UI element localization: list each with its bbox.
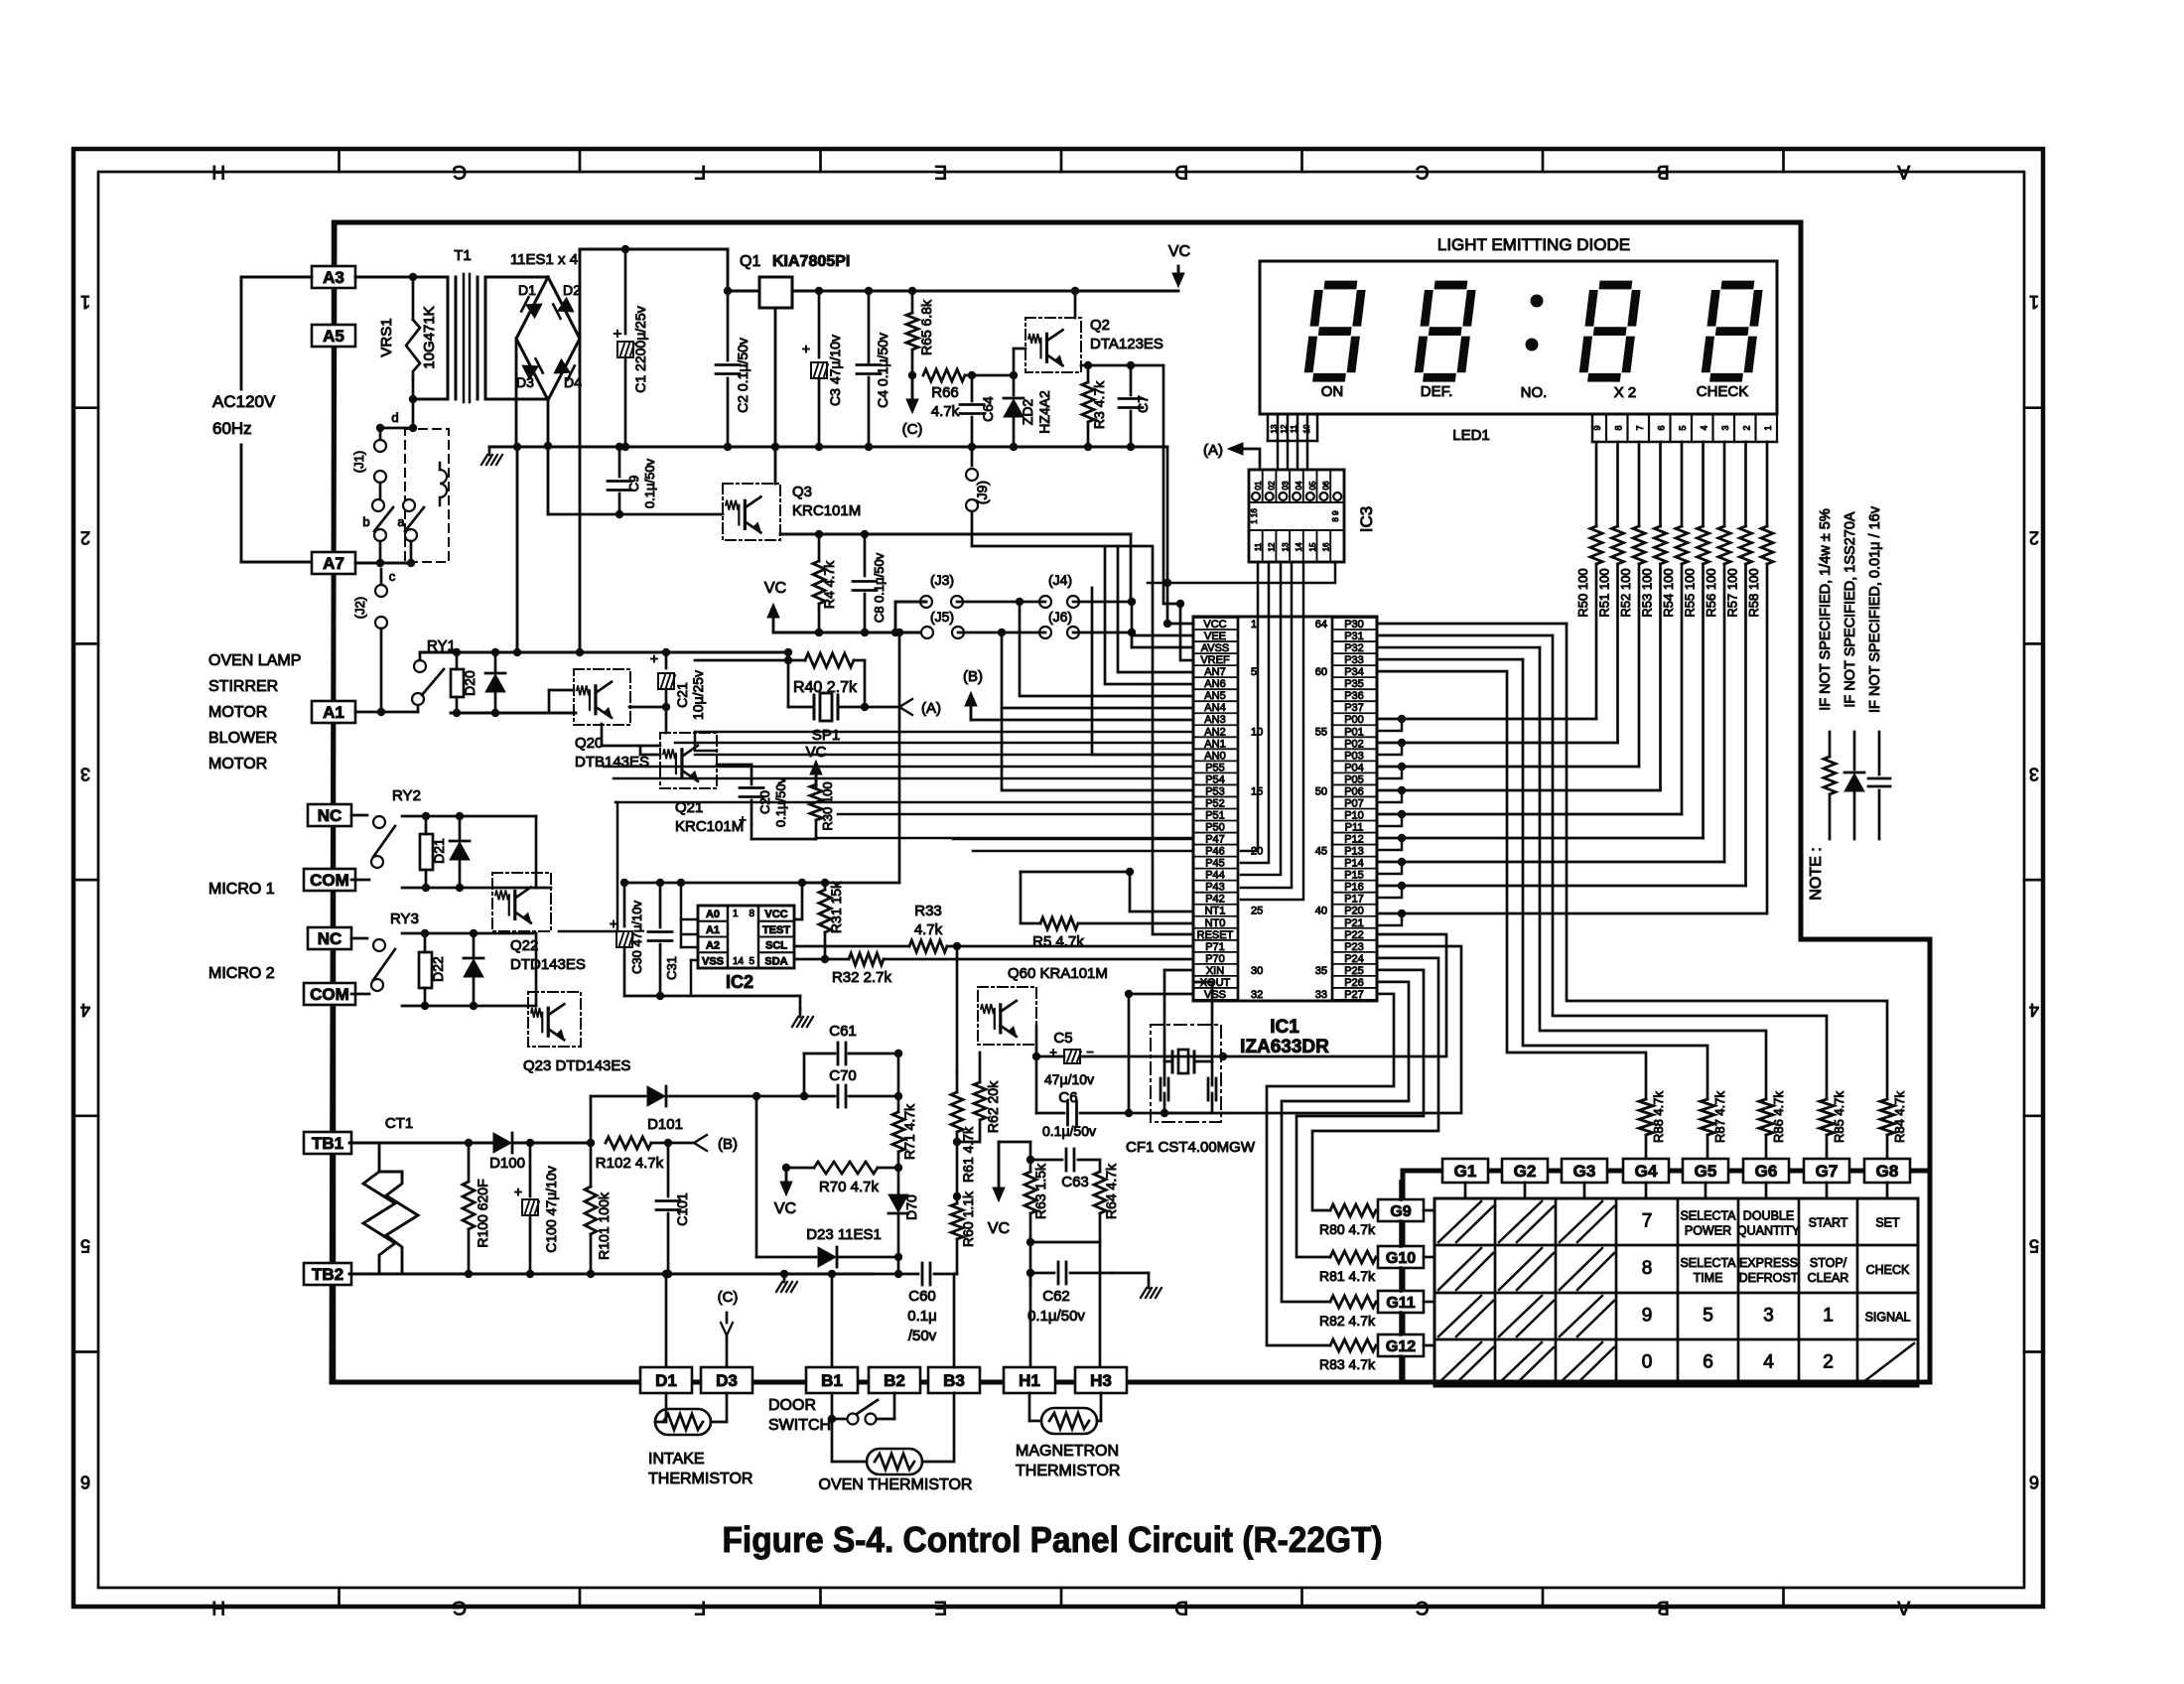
svg-text:ON: ON	[1321, 383, 1344, 400]
capacitor C7	[1130, 365, 1133, 395]
resistor R31 15k	[802, 882, 825, 885]
svg-text:0.1μ/50v: 0.1μ/50v	[642, 458, 657, 508]
svg-text:55: 55	[1315, 726, 1327, 738]
svg-text:R87 4.7k: R87 4.7k	[1712, 1090, 1727, 1143]
svg-text:E: E	[934, 161, 947, 182]
svg-text:(J9): (J9)	[974, 481, 990, 504]
svg-text:R53 100: R53 100	[1640, 568, 1655, 617]
svg-text:F: F	[694, 161, 706, 182]
svg-text:8: 8	[749, 909, 754, 919]
svg-text:03: 03	[1281, 481, 1290, 490]
svg-text:50: 50	[1315, 785, 1327, 797]
main circuit boundary	[332, 222, 1930, 1382]
svg-text:14: 14	[733, 956, 745, 967]
svg-text:VCC: VCC	[764, 909, 787, 920]
key row terminal G12	[1378, 1334, 1424, 1356]
wire P47 short	[953, 838, 1193, 841]
svg-text:NC: NC	[318, 806, 342, 825]
resistor R5 4.7k loop	[1021, 871, 1130, 874]
svg-text:(J4): (J4)	[1048, 572, 1072, 588]
svg-text:R102 4.7k: R102 4.7k	[596, 1155, 664, 1172]
svg-text:OVEN LAMP: OVEN LAMP	[208, 652, 301, 669]
svg-text:AC120V: AC120V	[212, 392, 276, 411]
wire AN0 riser	[1092, 588, 1193, 755]
svg-text:G6: G6	[1755, 1162, 1778, 1181]
svg-text:Q3: Q3	[792, 484, 812, 500]
wire IC2 VCC riser	[794, 883, 802, 919]
wire C7 node right	[1163, 365, 1180, 604]
svg-text:0.1μ: 0.1μ	[907, 1308, 937, 1325]
transistor Q3 KRC101M	[723, 484, 780, 540]
svg-text:DTD143ES: DTD143ES	[510, 956, 586, 973]
svg-text:MICRO 2: MICRO 2	[208, 965, 275, 982]
svg-text:5: 5	[1678, 425, 1688, 430]
jumper (J2)	[355, 562, 411, 565]
svg-text:TIME: TIME	[1694, 1271, 1723, 1285]
frame column ticks bottom	[338, 1588, 341, 1607]
svg-text:25: 25	[1251, 906, 1263, 917]
diode D100	[493, 1133, 511, 1153]
svg-text:3: 3	[1763, 1306, 1774, 1327]
svg-text:IF NOT SPECIFIED, 0.01μ / 16v: IF NOT SPECIFIED, 0.01μ / 16v	[1867, 505, 1883, 713]
key matrix boundary bus	[1403, 1171, 1930, 1382]
wire C62/H1	[1026, 1269, 1034, 1277]
IC3 GND wire	[1148, 562, 1335, 583]
svg-text:IZA633DR: IZA633DR	[1240, 1037, 1329, 1057]
svg-text:CHECK: CHECK	[1866, 1263, 1910, 1277]
svg-text:STIRRER: STIRRER	[208, 678, 278, 695]
intake thermistor	[665, 1393, 668, 1422]
svg-text:R101 100k: R101 100k	[596, 1192, 612, 1260]
svg-text:(J1): (J1)	[351, 451, 366, 473]
svg-text:G4: G4	[1635, 1162, 1658, 1181]
svg-text:6: 6	[80, 1472, 90, 1491]
svg-text:16: 16	[1322, 542, 1331, 551]
relay RY2 switch	[351, 814, 367, 817]
svg-text:D70: D70	[903, 1194, 919, 1220]
svg-text:LED1: LED1	[1452, 427, 1490, 444]
svg-text:6: 6	[1657, 425, 1667, 430]
svg-text:+: +	[614, 326, 622, 343]
svg-text:R50 100: R50 100	[1575, 568, 1590, 617]
svg-text:04: 04	[1295, 481, 1303, 490]
svg-text:TB2: TB2	[312, 1265, 343, 1284]
svg-text:D1: D1	[518, 282, 536, 298]
wire SCL row + resistor R33 4.7k	[794, 945, 907, 948]
key row terminal G10	[1378, 1246, 1424, 1268]
svg-text:IC2: IC2	[726, 972, 753, 992]
wires IC3 down to IC1 left pins	[1241, 562, 1258, 851]
wire T1 bottom	[413, 398, 448, 401]
wire VC rail down to IC1	[1166, 447, 1169, 583]
resistor R61 4.7k	[951, 1092, 963, 1132]
svg-text:C3 47μ/10v: C3 47μ/10v	[827, 335, 843, 406]
capacitor C3 47u/10v	[818, 291, 821, 357]
svg-text:NO.: NO.	[1521, 384, 1548, 401]
svg-text:CHECK: CHECK	[1697, 383, 1749, 400]
svg-text:R63 1.5k: R63 1.5k	[1032, 1163, 1048, 1219]
relay RY3 switch	[351, 937, 367, 940]
svg-text:MOTOR: MOTOR	[208, 756, 267, 772]
wire D23/D70 node riser	[897, 1257, 900, 1274]
VC arrow left	[785, 1168, 788, 1192]
wire AN7 riser	[1118, 546, 1193, 672]
wire bridge right down to relay rail	[579, 339, 582, 652]
connector IC3	[1249, 470, 1344, 562]
svg-text:VC: VC	[774, 1200, 796, 1217]
svg-text:Q23 DTD143ES: Q23 DTD143ES	[523, 1057, 630, 1074]
svg-text:06: 06	[1322, 481, 1331, 490]
svg-text:G: G	[452, 161, 467, 182]
resistor R51 100	[1616, 442, 1619, 526]
key matrix grid	[1434, 1198, 1918, 1386]
capacitor C8 0.1u/50v	[864, 534, 867, 576]
ground rail	[489, 446, 1167, 449]
svg-text:G10: G10	[1386, 1250, 1416, 1267]
IC2 right pin labels	[758, 906, 794, 921]
svg-text:A: A	[1897, 1597, 1910, 1617]
svg-text:R30 100: R30 100	[820, 781, 835, 830]
frame column ticks top	[338, 149, 341, 172]
transistor Q60 KRA101M	[978, 987, 1036, 1045]
svg-text:H1: H1	[1019, 1371, 1040, 1390]
svg-text:R51 100: R51 100	[1597, 568, 1612, 617]
svg-text:SELECTA: SELECTA	[1680, 1209, 1736, 1223]
wire A3 to T1	[355, 276, 448, 279]
resistor R60 1.1k	[956, 1196, 959, 1203]
svg-text:Figure S-4. Control Panel Circ: Figure S-4. Control Panel Circuit (R-22G…	[723, 1519, 1383, 1560]
key matrix diagonal cells	[1438, 1201, 1481, 1242]
wire bridge bottom down	[547, 400, 550, 514]
IC2 support wires	[624, 882, 802, 885]
svg-text:30: 30	[1251, 965, 1263, 977]
resistor R88 4.7k	[1639, 1099, 1653, 1135]
wires G boxes to matrix columns	[1464, 1183, 1467, 1198]
svg-text:EXPRESS: EXPRESS	[1739, 1256, 1798, 1270]
wire to R101	[530, 1142, 591, 1145]
svg-text:A: A	[1897, 161, 1910, 182]
svg-text:C64: C64	[980, 396, 996, 422]
svg-text:SDA: SDA	[764, 955, 787, 967]
svg-text:QUANTITY: QUANTITY	[1737, 1224, 1801, 1238]
wires Q20/Q21 interconnect	[601, 724, 604, 746]
wire IC1 VREF	[1180, 604, 1193, 660]
svg-text:+: +	[739, 812, 747, 827]
svg-text:R71 4.7k: R71 4.7k	[901, 1103, 917, 1160]
svg-text:COM: COM	[310, 871, 349, 890]
svg-text:R54 100: R54 100	[1661, 568, 1676, 617]
svg-text:X 2: X 2	[1614, 384, 1637, 401]
svg-text:R83 4.7k: R83 4.7k	[1319, 1356, 1376, 1372]
wire P53 bend	[1002, 708, 1193, 790]
svg-text:1: 1	[1763, 425, 1773, 430]
svg-text:E: E	[934, 1597, 947, 1617]
svg-text:G1: G1	[1454, 1162, 1477, 1181]
svg-text:5: 5	[749, 956, 754, 967]
wire bridge left to ground rail	[515, 339, 518, 447]
svg-text:VC: VC	[764, 580, 786, 597]
svg-text:Q20: Q20	[575, 735, 603, 752]
svg-text:G12: G12	[1386, 1338, 1416, 1355]
wire P23 to C6 rail	[1223, 946, 1461, 1113]
svg-text:3: 3	[2029, 764, 2039, 783]
svg-text:POWER: POWER	[1685, 1224, 1731, 1238]
svg-text:R81 4.7k: R81 4.7k	[1319, 1268, 1376, 1284]
svg-text:B: B	[1657, 161, 1670, 182]
wire R40 top to Q20/C21 rail	[695, 659, 788, 662]
svg-text:9: 9	[1592, 425, 1602, 430]
regulated +5V rail VC	[792, 290, 1178, 293]
svg-text:8 9: 8 9	[1331, 510, 1340, 522]
resistor R63 1.5k	[1029, 1142, 1032, 1172]
svg-text:Q22: Q22	[510, 937, 538, 954]
resistor R66 4.7k	[923, 369, 965, 381]
svg-text:R100 620F: R100 620F	[475, 1179, 490, 1247]
relay coil RY3 (D22 rect)	[419, 952, 432, 988]
svg-text:35: 35	[1315, 965, 1327, 977]
svg-text:SIGNAL: SIGNAL	[1865, 1311, 1911, 1325]
svg-text:R31 15k: R31 15k	[828, 881, 844, 933]
resistor R52 100	[1638, 442, 1641, 526]
wire AN5 bend	[1020, 602, 1193, 696]
resistor R100 620F	[465, 1139, 473, 1147]
svg-text:A1: A1	[323, 703, 344, 722]
svg-text:R56 100: R56 100	[1704, 568, 1718, 617]
svg-text:C101: C101	[674, 1193, 690, 1226]
ground symbol main	[488, 447, 491, 455]
svg-text:0.1μ/50v: 0.1μ/50v	[1027, 1308, 1085, 1325]
svg-text:01: 01	[1254, 481, 1263, 490]
svg-text:DEF.: DEF.	[1421, 383, 1453, 400]
svg-text:G8: G8	[1876, 1162, 1899, 1181]
wire AN4 bend	[1002, 632, 1193, 708]
svg-text:b: b	[362, 514, 369, 529]
svg-text:DEFROST: DEFROST	[1739, 1271, 1799, 1285]
svg-text:SWITCH: SWITCH	[768, 1417, 831, 1434]
wire Q60 base	[956, 946, 959, 1072]
svg-text:D100: D100	[489, 1155, 525, 1172]
svg-text:a: a	[397, 514, 405, 529]
terminal H3	[1075, 1367, 1127, 1393]
transistor Q22 DTD143ES	[492, 873, 551, 931]
svg-text:0.1μ/50v: 0.1μ/50v	[1042, 1123, 1096, 1139]
transistor Q2 DTA123ES	[1025, 318, 1081, 372]
wire SDA row + resistor R32 2.7k	[794, 958, 849, 961]
svg-text:MOTOR: MOTOR	[208, 704, 267, 721]
wire H3 riser	[1099, 1242, 1102, 1370]
IC2 left pin labels	[698, 906, 728, 921]
svg-text:G3: G3	[1573, 1162, 1596, 1181]
border frame inner	[98, 172, 2024, 1588]
capacitor C4 0.1u/50v	[868, 291, 871, 362]
svg-text:R57 100: R57 100	[1725, 568, 1740, 617]
capacitor C9 0.1u/50v	[618, 447, 621, 477]
wire D1 riser	[665, 1274, 668, 1369]
wire P55-P50 long	[695, 754, 1193, 757]
svg-text:13: 13	[1270, 424, 1279, 433]
vertical feeders from Q21-Q23	[695, 732, 717, 751]
svg-text:9: 9	[1642, 1306, 1653, 1327]
svg-text:START: START	[1809, 1216, 1848, 1230]
svg-text:R85 4.7k: R85 4.7k	[1832, 1090, 1846, 1143]
svg-text:R66: R66	[931, 384, 959, 401]
terminal A1	[312, 701, 355, 723]
wire bridge right up to +rail	[579, 249, 582, 339]
terminal D1	[640, 1367, 692, 1393]
transistor Q23 DTD143ES	[528, 992, 581, 1047]
unregulated rail to Q1	[580, 248, 728, 251]
svg-text:MAGNETRON: MAGNETRON	[1016, 1443, 1119, 1460]
svg-text:(J2): (J2)	[352, 597, 367, 619]
svg-text:3: 3	[80, 764, 90, 783]
resistor R56 100	[1723, 442, 1726, 526]
svg-text:C100 47μ/10v: C100 47μ/10v	[543, 1166, 559, 1252]
svg-text:C63: C63	[1061, 1174, 1089, 1191]
svg-text:4: 4	[1700, 425, 1709, 430]
svg-text:4: 4	[1763, 1352, 1774, 1373]
resistor R101 100k	[585, 1187, 597, 1234]
svg-text:C9: C9	[626, 476, 641, 492]
svg-text:1: 1	[1823, 1306, 1834, 1327]
svg-text:(J5): (J5)	[930, 609, 954, 625]
svg-text:CLEAR: CLEAR	[1808, 1271, 1849, 1285]
wire C5 row	[1036, 1055, 1064, 1058]
svg-text:B: B	[1657, 1597, 1670, 1617]
svg-text:CF1 CST4.00MGW: CF1 CST4.00MGW	[1126, 1139, 1256, 1156]
svg-text:TB1: TB1	[312, 1134, 343, 1153]
svg-text:(B): (B)	[718, 1136, 738, 1153]
svg-text:R65 6.8k: R65 6.8k	[918, 299, 934, 355]
svg-text:R58 100: R58 100	[1746, 568, 1761, 617]
svg-text:D1: D1	[655, 1371, 677, 1390]
svg-text:A1: A1	[706, 924, 720, 936]
terminal B2	[869, 1367, 920, 1393]
svg-text:G2: G2	[1514, 1162, 1537, 1181]
node (A) chevron	[865, 706, 899, 709]
svg-text:(A): (A)	[1203, 442, 1223, 459]
wire P22 to C5 rail	[1223, 934, 1446, 1056]
svg-text:d: d	[391, 410, 398, 425]
svg-text:D: D	[1174, 1597, 1188, 1617]
svg-text:60Hz: 60Hz	[212, 419, 252, 438]
svg-text:VC: VC	[988, 1220, 1010, 1237]
resistor R50 100	[1595, 442, 1598, 526]
bottom rail TB2	[469, 1273, 874, 1276]
svg-text:SET: SET	[1875, 1216, 1900, 1230]
svg-text:(A): (A)	[921, 700, 941, 717]
svg-text:R60 1.1k: R60 1.1k	[960, 1191, 976, 1247]
svg-text:5: 5	[1251, 666, 1257, 678]
jumper (J9)	[971, 447, 974, 466]
capacitor C64	[971, 375, 974, 401]
svg-text:1 16: 1 16	[1250, 508, 1259, 524]
wire T1 secondary to bridge	[485, 276, 548, 279]
svg-text:DOUBLE: DOUBLE	[1743, 1209, 1794, 1223]
svg-text:C31: C31	[664, 956, 679, 980]
svg-text:11ES1 x 4: 11ES1 x 4	[510, 251, 578, 268]
key row terminal G9	[1378, 1199, 1424, 1221]
relay RY3 terminal COM	[304, 983, 355, 1005]
IC2 ground	[799, 1009, 802, 1017]
svg-text:(C): (C)	[902, 421, 923, 438]
svg-text:C: C	[1416, 1597, 1430, 1617]
wires IC1 P24-P27 to key row resistors	[1312, 958, 1438, 1210]
transistor Q21 KRC101M	[660, 733, 717, 788]
frame row ticks left	[73, 406, 98, 409]
resistor R82 4.7k	[1330, 1296, 1376, 1308]
svg-text:R33: R33	[914, 903, 942, 919]
svg-text:20: 20	[1251, 846, 1263, 858]
svg-text:R3 4.7k: R3 4.7k	[1091, 380, 1107, 429]
resistor R3 4.7k	[1082, 382, 1094, 422]
svg-text:INTAKE: INTAKE	[648, 1451, 705, 1468]
terminal D3	[701, 1367, 752, 1393]
resistor R86 4.7k	[1759, 1099, 1773, 1135]
svg-text:5: 5	[2029, 1236, 2039, 1256]
svg-text:Q1: Q1	[740, 253, 760, 270]
svg-text:8: 8	[1642, 1258, 1653, 1279]
svg-text:C70: C70	[829, 1067, 857, 1084]
resistor R70 4.7k	[814, 1162, 878, 1174]
svg-text:14: 14	[1295, 542, 1303, 551]
svg-text:STOP/: STOP/	[1810, 1256, 1847, 1270]
key matrix G1-G8 header boxes	[1442, 1159, 1488, 1183]
left rail wire	[332, 222, 337, 1382]
svg-text:D22: D22	[430, 956, 446, 982]
svg-text:A7: A7	[323, 554, 344, 573]
svg-text:G11: G11	[1386, 1295, 1415, 1312]
7-segment digit 4	[1706, 285, 1759, 377]
svg-text:SCL: SCL	[765, 940, 787, 952]
svg-text:G7: G7	[1816, 1162, 1839, 1181]
svg-text:A5: A5	[323, 327, 344, 346]
terminal TB1	[304, 1132, 351, 1154]
svg-text:DOOR: DOOR	[768, 1397, 816, 1414]
svg-text:3: 3	[1720, 425, 1730, 430]
svg-text:G9: G9	[1390, 1203, 1411, 1220]
svg-text:C: C	[1416, 161, 1430, 182]
resistor R84 4.7k	[1880, 1099, 1894, 1135]
zener diode ZD2 HZ4A2	[1013, 375, 1016, 395]
svg-text:C61: C61	[829, 1023, 857, 1040]
key row terminal G11	[1378, 1291, 1424, 1313]
svg-text:HZ4A2: HZ4A2	[1036, 390, 1052, 434]
svg-text:IF NOT SPECIFIED, 1/4w ± 5%: IF NOT SPECIFIED, 1/4w ± 5%	[1818, 508, 1834, 711]
wires IC1 ports P30-P34 to key columns	[1377, 623, 1567, 626]
relay coil arcs	[440, 470, 447, 497]
svg-text:c: c	[389, 569, 396, 584]
note symbol diode	[1853, 732, 1856, 770]
svg-text:05: 05	[1308, 481, 1317, 490]
terminal A5	[312, 325, 355, 347]
svg-text:C30 47μ/10v: C30 47μ/10v	[629, 901, 644, 974]
resistor R57 100	[1744, 442, 1747, 526]
svg-text:02: 02	[1268, 481, 1277, 490]
wire VSS row to C6	[1129, 993, 1193, 996]
resistor R53 100	[1659, 442, 1662, 526]
wire B1 riser	[831, 1274, 834, 1369]
svg-text:RY3: RY3	[390, 911, 419, 927]
border frame outer	[73, 149, 2043, 1607]
magnetron thermistor	[1028, 1393, 1031, 1421]
svg-text:45: 45	[1315, 846, 1327, 858]
svg-text:33: 33	[1315, 989, 1327, 1001]
wire R63/R64 bottom tie	[1030, 1241, 1100, 1244]
(C) arrow below R65	[911, 375, 914, 409]
wires Q22/Q23	[535, 816, 538, 888]
svg-text:R55 100: R55 100	[1683, 568, 1698, 617]
svg-text:D21: D21	[431, 838, 447, 864]
